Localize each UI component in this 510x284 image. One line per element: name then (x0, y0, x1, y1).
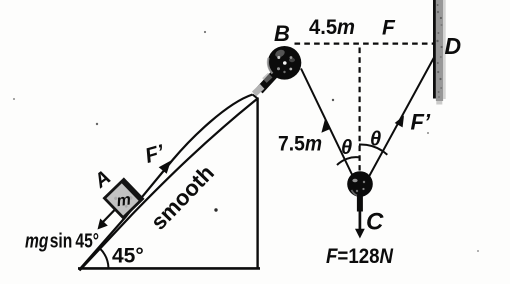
scan speck top (204, 31, 206, 33)
theta arc left (337, 157, 359, 165)
svg-text:mg sin 45°: mg sin 45° (25, 231, 99, 253)
theta arc right (359, 144, 387, 154)
ring/ball at C vertex (347, 171, 373, 197)
pulley B (268, 46, 302, 80)
pulley bracket (260, 66, 283, 91)
block m (square on incline) (104, 179, 142, 217)
incline surface lower line (hypotenuse) (80, 99, 258, 271)
svg-text:F’: F’ (411, 110, 431, 135)
arrowhead on left string (toward B) (321, 119, 330, 133)
scan speck far left (13, 98, 15, 100)
arrowhead on right string (toward D) (395, 116, 404, 128)
svg-text:D: D (445, 33, 462, 59)
bracket gray end cap (252, 84, 264, 96)
scan speck right (427, 132, 429, 134)
incline triangle bottom edge (78, 267, 260, 270)
thick down arrow from ring (load) (357, 195, 363, 212)
F' arrow up the incline (159, 161, 171, 174)
scan speck left (96, 123, 98, 125)
scan speck mid (332, 99, 334, 101)
svg-text:F=128N: F=128N (326, 245, 394, 268)
svg-text:F: F (382, 17, 396, 40)
scan speck inside triangle (214, 208, 217, 211)
svg-text:B: B (274, 21, 290, 46)
string from pulley to ring C (left string) (301, 69, 353, 176)
wall hatch/shadow band (436, 0, 443, 101)
svg-text:4.5m: 4.5m (309, 16, 355, 39)
wall (433, 0, 436, 99)
mg sin 45 arrow (down the incline from block) (101, 209, 116, 225)
svg-text:θ: θ (370, 129, 381, 151)
svg-text:θ: θ (341, 137, 352, 159)
right string from ring to wall D (369, 58, 434, 177)
incline surface upper line (hypotenuse) (79, 95, 253, 271)
incline triangle right vertical edge (256, 98, 258, 270)
svg-text:m: m (116, 191, 132, 210)
dashed horizontal line B to D (295, 42, 434, 44)
scan speck bottom right (477, 250, 479, 252)
svg-text:7.5m: 7.5m (278, 133, 322, 156)
svg-text:C: C (366, 209, 384, 236)
svg-text:45°: 45° (112, 245, 144, 268)
dashed vertical line (359, 48, 361, 171)
apex connector (253, 95, 258, 99)
45 degree arc at vertex (100, 248, 109, 268)
